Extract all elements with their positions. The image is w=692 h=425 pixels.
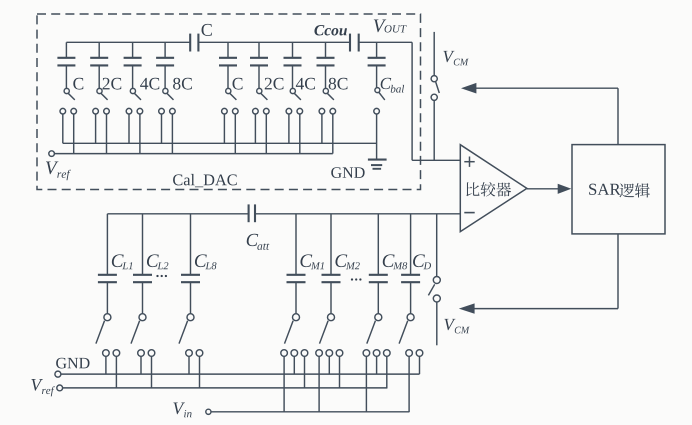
op-amp U1 comparator triangle — [460, 145, 527, 232]
wire C_M1 terminal to Vref rail — [304, 356, 306, 388]
wire V_in rail — [211, 411, 409, 413]
value label 4C of cal-right bit2 (4C) — [296, 78, 315, 90]
label C_L1 — [112, 254, 124, 267]
wire top feedback horizontal — [476, 87, 618, 89]
wire bottom feedback horizontal — [474, 308, 618, 310]
wire capacitor cal-right bit2 (4C) to switch — [292, 66, 294, 88]
wire V_CM switch to comparator plus node — [433, 100, 435, 160]
capacitor cal-right bit1 (2C) — [250, 57, 268, 59]
wire capacitor cal-left bit1 (2C) to switch — [98, 66, 100, 88]
terminal contacts of cal-right bit0 (C) — [222, 108, 228, 114]
value label 8C of cal-right bit3 (8C) — [329, 78, 348, 90]
wire stub from rail to capacitor C_L1 — [106, 214, 108, 274]
label V_in — [173, 403, 184, 415]
wire C_M8 terminal to Vref rail — [386, 356, 388, 388]
wire capacitor cal-right bit3 (8C) to switch — [325, 66, 327, 88]
switch pole circle of cal-left bit3 (8C) — [163, 88, 168, 93]
wire Vref bus inside Cal_DAC — [54, 153, 332, 155]
wire stub from rail to capacitor C_L2 — [142, 214, 144, 274]
ellipsis dots between C_M2 and C_M8 — [351, 278, 353, 280]
wire GND rail — [61, 373, 420, 375]
wire Cal_DAC top rail right segment — [359, 41, 412, 43]
terminal contacts of C_M8 — [363, 350, 370, 357]
wire capacitor cal-right bit1 (2C) to switch — [258, 66, 260, 88]
wire bottom feedback vertical — [617, 234, 619, 309]
wire Cal_DAC top rail middle segment — [198, 41, 350, 43]
terminal contacts of C_L1 — [103, 350, 110, 357]
switch S_vcm_top lever — [436, 82, 440, 93]
wire left terminal of cal-right bit2 (4C) to GND bus — [288, 114, 290, 144]
label comparator (Chinese: bijiaoqi) — [466, 182, 479, 196]
capacitor C_bal — [368, 57, 386, 59]
label C_M1 — [300, 254, 312, 267]
capacitor cal-left bit3 (8C) — [156, 57, 174, 59]
capacitor Ccou (coupling) — [349, 34, 351, 52]
wire left terminal of cal-left bit0 (C) to GND bus — [62, 114, 64, 144]
wire capacitor C_M2 to switch — [330, 283, 332, 314]
wire main DAC top plate to bottom V_CM switch — [436, 214, 438, 277]
wire capacitor C_L2 to switch — [142, 283, 144, 314]
switch pole circle of cal-left bit2 (4C) — [130, 88, 135, 93]
label C_D — [413, 254, 425, 267]
node V_ref terminal — [57, 385, 63, 391]
wire capacitor cal-left bit3 (8C) to switch — [164, 66, 166, 88]
wire stub from rail to capacitor C_M1 — [295, 214, 297, 274]
switch pole circle of C_L2 switch — [139, 314, 146, 321]
label Cal_DAC — [173, 174, 237, 187]
wire C_M2 terminal to GND rail — [328, 356, 330, 374]
wire main DAC rail right of C_att / comparator minus input — [255, 213, 460, 215]
wire right terminal of cal-left bit0 (C) to Vref bus — [73, 114, 75, 154]
wire capacitor C_L1 to switch — [106, 283, 108, 314]
wire C_L2 terminal to GND rail — [140, 356, 142, 374]
label V_ref (Cal_DAC) — [46, 162, 58, 175]
switch lever of C_L1 switch — [96, 321, 105, 344]
wire Cal_DAC top rail left segment — [66, 41, 190, 43]
label C_L2 — [147, 254, 159, 267]
value label 4C of cal-left bit2 (4C) — [140, 78, 159, 90]
wire left terminal of cal-left bit3 (8C) to GND bus — [161, 114, 163, 144]
wire stub from rail to capacitor cal-right bit2 (4C) — [292, 42, 294, 57]
switch S_vcm_bottom contact 1 — [433, 277, 440, 284]
wire V_OUT vertical drop — [411, 42, 413, 160]
wire capacitor C_D to switch — [410, 283, 412, 314]
switch pole circle of C_M8 switch — [375, 314, 382, 321]
wire C_L1 terminal to GND rail — [105, 356, 107, 374]
switch pole circle of cal-right bit3 (8C) — [323, 88, 328, 93]
wire main DAC top rail left of C_att — [107, 213, 248, 215]
wire capacitor C_M8 to switch — [377, 283, 379, 314]
label C_L8 — [195, 254, 207, 267]
wire V_CM bottom open end — [436, 302, 438, 345]
wire top feedback vertical — [617, 88, 619, 144]
terminal contacts of cal-left bit1 (2C) — [93, 108, 99, 114]
switch pole circle of cal-right bit1 (2C) — [257, 88, 262, 93]
switch lever of cal-right bit0 (C) — [230, 93, 237, 100]
switch lever of C_L8 switch — [179, 321, 188, 344]
label GND (Cal_DAC) — [331, 167, 364, 178]
wire comparator output — [527, 188, 559, 190]
wire C_M1 terminal to GND rail — [293, 356, 295, 374]
capacitor cal-left bit1 (2C) — [90, 57, 108, 59]
switch pole circle of C_bal switch — [375, 88, 380, 93]
terminal contacts of cal-left bit3 (8C) — [159, 108, 165, 114]
arrowhead top feedback to V_CM switch — [461, 83, 476, 94]
switch lever of C_D switch — [399, 321, 408, 344]
wire C_L8 terminal to Vref rail — [199, 356, 201, 388]
switch pole circle of C_L8 switch — [187, 314, 194, 321]
comparator minus sign — [464, 212, 474, 214]
ground symbol (Cal_DAC) — [368, 159, 387, 161]
terminal contacts of cal-right bit1 (2C) — [253, 108, 259, 114]
Cal_DAC dashed boundary box — [37, 14, 421, 190]
switch pole circle of cal-right bit2 (4C) — [290, 88, 295, 93]
capacitor cal-right bit0 (C) — [219, 57, 237, 59]
label C_bal — [381, 78, 392, 89]
switch lever of cal-right bit3 (8C) — [327, 93, 334, 100]
wire stub from rail to capacitor C_L8 — [190, 214, 192, 274]
wire capacitor C_M1 to switch — [295, 283, 297, 314]
capacitor C_M8 — [369, 274, 388, 276]
wire stub from rail to capacitor C_D — [410, 214, 412, 274]
wire stub from rail to capacitor cal-left bit2 (4C) — [132, 42, 134, 57]
switch pole circle of cal-left bit1 (2C) — [97, 88, 102, 93]
switch lever of C_M8 switch — [367, 321, 376, 344]
switch pole circle of C_M1 switch — [293, 314, 300, 321]
switch lever of cal-right bit1 (2C) — [261, 93, 268, 100]
wire C_D terminal to Vin rail — [408, 356, 410, 412]
label V_CM (top) — [443, 51, 454, 62]
wire C_bal terminal to ground — [376, 114, 378, 160]
wire V_CM top feed — [433, 32, 435, 76]
switch lever of cal-left bit3 (8C) — [167, 93, 174, 100]
switch lever of cal-left bit0 (C) — [68, 93, 75, 100]
wire capacitor cal-right bit0 (C) to switch — [227, 66, 229, 88]
capacitor C_L8 — [181, 274, 200, 276]
capacitor C_D — [401, 274, 420, 276]
switch lever of cal-left bit2 (4C) — [134, 93, 141, 100]
switch pole circle of C_D switch — [407, 314, 414, 321]
terminal contacts of C_L8 — [186, 350, 193, 357]
arrowhead comparator output into SAR logic — [558, 184, 572, 194]
wire right terminal of cal-right bit2 (4C) to Vref bus — [299, 114, 301, 154]
wire C_M1 terminal to Vin rail — [283, 356, 285, 412]
capacitor C_L1 — [98, 274, 117, 276]
arrowhead bottom feedback to V_CM switch — [459, 303, 475, 313]
capacitor C_att (series attenuation) — [248, 204, 250, 222]
wire stub from rail to capacitor cal-right bit3 (8C) — [325, 42, 327, 57]
block SAR logic box — [572, 145, 665, 234]
capacitor C (series bridge in Cal_DAC) — [189, 34, 191, 52]
wire C_M2 terminal to Vref rail — [339, 356, 341, 388]
switch S_vcm_top contact 1 — [431, 76, 437, 82]
switch S_vcm_top contact 2 — [431, 94, 437, 100]
comparator plus sign — [464, 161, 474, 163]
terminal contacts of C_M2 — [316, 350, 323, 357]
wire capacitor C_bal to switch — [376, 66, 378, 88]
wire comparator plus input — [412, 159, 460, 161]
wire right terminal of cal-right bit0 (C) to Vref bus — [234, 114, 236, 154]
switch lever of cal-left bit1 (2C) — [101, 93, 108, 100]
label C_att — [247, 234, 258, 246]
switch lever of C_bal switch — [379, 93, 385, 100]
terminal contacts of cal-right bit2 (4C) — [286, 108, 292, 114]
switch lever of C_L2 switch — [131, 321, 140, 344]
wire capacitor cal-left bit0 (C) to switch — [65, 66, 67, 88]
wire C_L2 terminal to Vref rail — [151, 356, 153, 388]
ellipsis dots between C_L2 and C_L8 — [156, 275, 158, 277]
capacitor C_M1 — [287, 274, 306, 276]
terminal contact of C_bal — [374, 108, 380, 114]
wire stub from rail to capacitor cal-left bit0 (C) — [65, 42, 67, 57]
wire C_L8 terminal to GND rail — [188, 356, 190, 374]
wire right terminal of cal-left bit3 (8C) to Vref bus — [171, 114, 173, 154]
label SAR logic — [589, 184, 621, 195]
wire stub from rail to capacitor cal-left bit1 (2C) — [98, 42, 100, 57]
wire capacitor cal-left bit2 (4C) to switch — [132, 66, 134, 88]
wire C_D terminal to GND rail — [419, 356, 421, 374]
switch pole circle of C_L1 switch — [104, 314, 111, 321]
value label 8C of cal-left bit3 (8C) — [173, 78, 192, 90]
label V_CM (bottom) — [444, 319, 455, 330]
wire left terminal of cal-right bit0 (C) to GND bus — [223, 114, 225, 144]
wire C_L1 terminal to Vref rail — [115, 356, 117, 388]
value label 2C of cal-left bit1 (2C) — [103, 78, 122, 90]
node V_ref input terminal of Cal_DAC — [49, 151, 55, 157]
label V_OUT — [374, 19, 386, 32]
wire right terminal of cal-right bit3 (8C) to Vref bus — [332, 114, 334, 154]
terminal contacts of C_D — [406, 350, 413, 357]
terminal contacts of cal-left bit0 (C) — [60, 108, 66, 114]
capacitor cal-left bit2 (4C) — [124, 57, 142, 59]
label C_M2 — [335, 254, 347, 267]
wire C_M2 terminal to Vin rail — [318, 356, 320, 412]
wire capacitor C_L8 to switch — [190, 283, 192, 314]
switch lever of cal-right bit2 (4C) — [294, 93, 301, 100]
wire left terminal of cal-right bit3 (8C) to GND bus — [321, 114, 323, 144]
capacitor C_L2 — [133, 274, 152, 276]
label GND (main DAC) — [56, 358, 89, 369]
switch pole circle of cal-right bit0 (C) — [226, 88, 231, 93]
switch pole circle of C_M2 switch — [328, 314, 335, 321]
switch S_vcm_bottom lever — [428, 284, 434, 295]
wire right terminal of cal-left bit1 (2C) to Vref bus — [106, 114, 108, 154]
wire C_M8 terminal to GND rail — [376, 356, 378, 374]
capacitor C_M2 — [322, 274, 341, 276]
value label 2C of cal-right bit1 (2C) — [265, 78, 284, 90]
node GND terminal — [55, 371, 61, 377]
wire C_M8 terminal to Vin rail — [365, 356, 367, 412]
label Ccou — [314, 25, 347, 35]
wire left terminal of cal-left bit1 (2C) to GND bus — [95, 114, 97, 144]
switch lever of C_M2 switch — [320, 321, 329, 344]
wire left terminal of cal-right bit1 (2C) to GND bus — [254, 114, 256, 144]
capacitor cal-right bit2 (4C) — [284, 57, 302, 59]
wire GND bus inside Cal_DAC — [63, 142, 377, 144]
terminal contacts of C_M1 — [281, 350, 288, 357]
switch lever of C_M1 switch — [285, 321, 294, 344]
switch pole circle of cal-left bit0 (C) — [64, 88, 69, 93]
label V_ref (main DAC) — [31, 379, 42, 391]
terminal contacts of cal-left bit2 (4C) — [126, 108, 132, 114]
capacitor cal-left bit0 (C) — [57, 57, 75, 59]
capacitor cal-right bit3 (8C) — [317, 57, 335, 59]
wire V_ref rail — [63, 387, 387, 389]
wire stub from rail to capacitor cal-left bit3 (8C) — [164, 42, 166, 57]
node V_in terminal — [206, 409, 211, 414]
label C for series capacitor — [202, 24, 212, 36]
value label C of cal-right bit0 (C) — [233, 78, 243, 90]
wire left terminal of cal-left bit2 (4C) to GND bus — [128, 114, 130, 144]
switch S_vcm_bottom contact 2 — [433, 295, 440, 302]
wire right terminal of cal-right bit1 (2C) to Vref bus — [265, 114, 267, 154]
wire stub from rail to capacitor C_bal — [376, 42, 378, 57]
terminal contacts of cal-right bit3 (8C) — [319, 108, 325, 114]
wire stub from rail to capacitor cal-right bit1 (2C) — [258, 42, 260, 57]
wire right terminal of cal-left bit2 (4C) to Vref bus — [139, 114, 141, 154]
terminal contacts of C_L2 — [138, 350, 145, 357]
wire stub from rail to capacitor cal-right bit0 (C) — [227, 42, 229, 57]
label C_M8 — [383, 254, 395, 267]
value label C of cal-left bit0 (C) — [73, 78, 83, 90]
wire stub from rail to capacitor C_M8 — [377, 214, 379, 274]
wire stub from rail to capacitor C_M2 — [330, 214, 332, 274]
